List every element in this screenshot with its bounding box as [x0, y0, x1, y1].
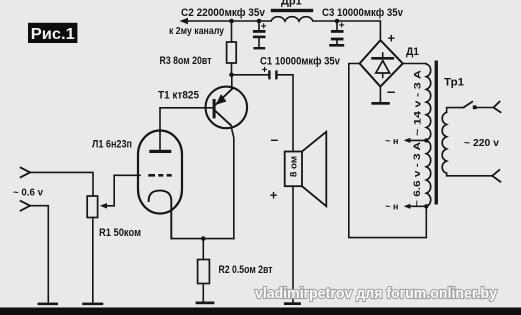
transistor T1 emitter diagonal [216, 89, 233, 105]
wire: R2 top [202, 239, 204, 260]
capacitor C3 top stub [336, 21, 338, 30]
transformer secondary winding 14v section [426, 64, 430, 140]
wire: input 1 to R1 [30, 172, 93, 196]
wire: primary top lead to switch [447, 108, 464, 113]
capacitor C2 bottom stub [258, 38, 260, 47]
svg-text:~ 220 v: ~ 220 v [464, 138, 499, 149]
wire: R1 wiper [105, 175, 115, 206]
svg-text:R1 50ком: R1 50ком [99, 227, 141, 239]
tube L1 cathode arc and lead [149, 191, 172, 239]
resistor R3 body [227, 42, 237, 63]
capacitor C3 bottom stub [336, 40, 338, 44]
wire: primary bottom lead [447, 173, 493, 176]
svg-text:Д1: Д1 [406, 46, 419, 58]
svg-text:+: + [261, 21, 267, 32]
node: R2 junction [201, 236, 206, 241]
svg-text:R2 0.5ом 2вт: R2 0.5ом 2вт [219, 264, 273, 276]
tap arrow 14v (~н) [407, 139, 426, 141]
capacitor C1 plates [268, 70, 270, 79]
svg-text:Тр1: Тр1 [444, 77, 464, 89]
wire: speaker bottom to ground [292, 186, 294, 302]
speaker frame [285, 152, 302, 187]
diode D1 triangle [376, 61, 390, 73]
wire: C1 left lead [232, 74, 269, 76]
svg-text:vladimirpetrov для forum.onlin: vladimirpetrov для forum.onliner.by [255, 285, 498, 302]
svg-text:Рис.1: Рис.1 [31, 26, 75, 43]
tap arrow 6.6v (~н) [407, 205, 426, 207]
svg-text:~ н: ~ н [385, 202, 398, 212]
label Рис.1 box [28, 23, 77, 43]
svg-text:~ 0.6 v: ~ 0.6 v [13, 187, 43, 198]
resistor R2 body [198, 260, 210, 284]
speaker horn [302, 132, 326, 206]
arrow head: T1 emitter (PNP) [216, 94, 227, 105]
potentiometer R1 body [87, 196, 97, 218]
node: R3/C1/T1 junction [229, 73, 234, 78]
transistor T1 base bar [213, 99, 216, 118]
tube L1 grid dashes [148, 174, 155, 177]
ground bar bridge [371, 102, 389, 105]
transistor T1 collector diagonal [216, 111, 231, 125]
wire: T1 collector drop [231, 125, 234, 239]
wire: tube anode to T1 base [160, 108, 213, 151]
wire: R1 bottom to ground [92, 218, 94, 303]
input terminal 2 fork [21, 201, 30, 211]
wire: input 2 down to ground [30, 206, 48, 302]
diode D1 symbol stubs [382, 53, 384, 77]
terminal fork 220v top [494, 102, 501, 113]
wire: top rail middle [232, 20, 272, 22]
svg-text:~ н: ~ н [385, 136, 398, 146]
ground bar C2 [253, 47, 265, 49]
wire: C1 right lead to speaker drop [278, 75, 293, 152]
svg-text:R3 8ом 20вт: R3 8ом 20вт [160, 55, 212, 67]
wire: bridge bottom to ground [379, 87, 381, 102]
wire: R3 bottom [231, 63, 233, 75]
svg-text:Т1 кт825: Т1 кт825 [158, 89, 199, 101]
switch contact dot [473, 105, 477, 109]
bottom black bar [0, 308, 521, 315]
transformer secondary winding 6.6v section [426, 140, 430, 206]
ground bar speaker [284, 302, 301, 305]
arrow head: tap 14v [404, 138, 411, 143]
svg-text:Л1 6н23п: Л1 6н23п [92, 139, 132, 151]
terminal fork 220v bottom [492, 170, 500, 182]
node: rail junction R3 [229, 19, 234, 24]
input terminal 1 fork [21, 168, 30, 178]
wire: top rail right [313, 21, 380, 40]
switch lever [464, 102, 472, 108]
wire: grid lead [114, 174, 140, 176]
svg-text:~ 6.6 v - 3 A: ~ 6.6 v - 3 A [412, 142, 423, 207]
wire: cathode-collector bottom wire [171, 238, 234, 240]
svg-text:8 ом: 8 ом [289, 156, 300, 177]
wire: top rail left arrow (к 2му каналу) [184, 20, 232, 22]
transistor T1 circle [206, 87, 248, 129]
transformer primary winding [442, 112, 446, 173]
arrow head: R1 wiper [100, 203, 107, 209]
svg-text:–: – [271, 131, 279, 147]
node: tap 6.6v junction [424, 204, 428, 208]
svg-text:+: + [339, 21, 345, 32]
arrow head: tap 6.6v [404, 204, 411, 209]
wire: R3 top [231, 21, 233, 42]
svg-text:~ 14 v - 3 A: ~ 14 v - 3 A [413, 70, 424, 136]
wire: bridge left corner to bottom loop [349, 64, 427, 238]
ground bar R2 [196, 302, 215, 305]
svg-text:Др1: Др1 [281, 0, 302, 7]
svg-text:+: + [262, 65, 268, 76]
svg-text:+: + [270, 188, 278, 203]
svg-text:к 2му каналу: к 2му каналу [169, 26, 224, 37]
transformer core [435, 61, 438, 205]
diode bridge D1 diamond [360, 40, 403, 86]
wire: switch to terminal [477, 107, 494, 109]
ground bar input 2 [38, 303, 58, 306]
wire: T1 emitter top lead [231, 75, 233, 89]
capacitor C2 plates [253, 30, 266, 33]
arrow head: to 2nd channel [180, 18, 189, 24]
node: rail junction C2 [257, 19, 262, 24]
capacitor C2 top stub [258, 21, 260, 30]
svg-text:–: – [387, 84, 395, 101]
capacitor C3 plates [331, 30, 344, 33]
ground bar C3 [329, 44, 344, 47]
svg-text:+: + [388, 31, 396, 46]
svg-text:C2 22000мкф 35v: C2 22000мкф 35v [181, 7, 266, 19]
ground bar R1 [82, 303, 103, 306]
svg-text:C3 10000мкф 35v: C3 10000мкф 35v [322, 7, 404, 19]
tube L1 plate bar [149, 150, 171, 153]
tube L1 envelope [138, 131, 182, 214]
node: tap 14v junction [424, 138, 428, 142]
wire: R2 bottom [202, 284, 204, 302]
inductor Dr1 winding humps [271, 17, 313, 21]
diode D1 cathode bar [373, 57, 393, 60]
wire: bridge right corner to winding top [403, 63, 427, 66]
svg-text:C1 10000мкф 35v: C1 10000мкф 35v [260, 56, 341, 68]
node: rail junction C3 [335, 19, 340, 24]
inductor Dr1 core bar [271, 9, 313, 12]
